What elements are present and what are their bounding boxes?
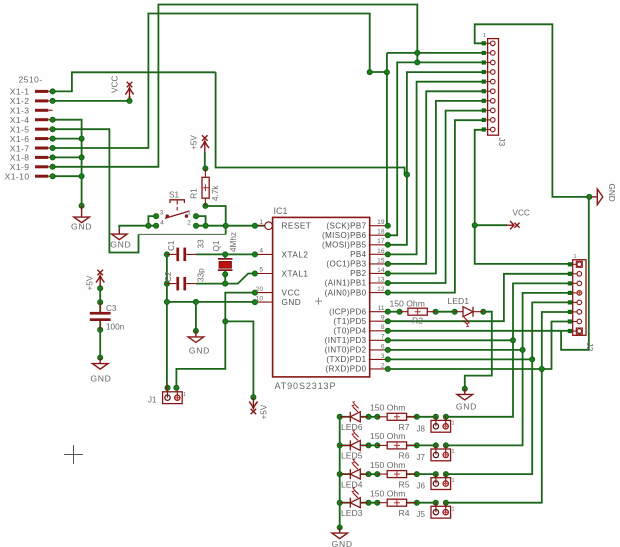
svg-text:Q1: Q1: [212, 240, 221, 251]
J3 pin 4: [484, 71, 491, 73]
node IC1 pin 16 pad: [385, 252, 390, 257]
svg-text:+5V: +5V: [86, 275, 95, 290]
junction at 81.6,157.4: [79, 155, 84, 160]
wire row8: [388, 330, 561, 332]
wire RESET row to IC: [196, 225, 265, 227]
IC1 pin 6 (INT0)PD2: [370, 349, 388, 351]
node dot at 416.8,445.4: [414, 443, 419, 448]
svg-text:LED4: LED4: [341, 479, 363, 489]
svg-text:2: 2: [381, 362, 385, 369]
IC1 pin 8 (T0)PD4: [370, 330, 388, 332]
crystal Q1 4Mhz: [218, 259, 233, 270]
junction at 474.7,225.2: [472, 223, 477, 228]
svg-text:(OC1)PB3: (OC1)PB3: [326, 260, 366, 269]
J3 pin 10: [484, 129, 491, 131]
IC1 pin 2 (RXD)PD0: [370, 368, 388, 370]
node S1 pad 4: [154, 223, 159, 228]
supply +5V above C3: [96, 270, 104, 287]
wire LED1 to GND: [465, 312, 492, 389]
wire S1 pin1 jog: [196, 216, 206, 226]
J3 pin 7: [484, 100, 491, 102]
J3 pin 8: [484, 109, 491, 111]
junction at 532.2,359.4: [530, 357, 535, 362]
svg-text:C1: C1: [167, 240, 176, 251]
LED LED5: [350, 430, 360, 450]
junction at 589.3,196.9: [587, 194, 592, 199]
node IC1 pin 11 pad: [385, 309, 390, 314]
svg-text:XTAL2: XTAL2: [282, 250, 309, 259]
svg-text:2510-: 2510-: [19, 75, 43, 85]
wire LED row 1 segments: [340, 416, 351, 418]
svg-text:100n: 100n: [106, 323, 125, 332]
junction at 166.9,283.6: [164, 281, 169, 286]
svg-text:20: 20: [256, 286, 264, 293]
svg-text:4.7k: 4.7k: [211, 185, 220, 201]
svg-text:1: 1: [483, 33, 486, 39]
wire row3: [388, 358, 532, 360]
supply VCC near IC right: [506, 221, 520, 229]
IC1 pin 1 RESET: [255, 225, 265, 227]
svg-text:XTAL1: XTAL1: [282, 270, 309, 279]
svg-text:(ICP)PD6: (ICP)PD6: [329, 307, 367, 316]
capacitor C1 33p: [167, 248, 196, 262]
svg-text:(AIN1)PB1: (AIN1)PB1: [325, 279, 367, 288]
node dot at 368.5,474.1: [366, 472, 371, 477]
wire GND symbol drop: [195, 302, 197, 332]
pin X1-2: [35, 99, 53, 102]
svg-text:GND: GND: [110, 239, 131, 249]
junction at 253.4,397.3: [251, 395, 256, 400]
junction at 148.4,225.7: [146, 223, 151, 228]
IC1 pin 17 (MOSI)PB5: [370, 244, 388, 246]
IC1 pin 9 (T1)PD5: [370, 320, 388, 322]
node dot at 377.3,502.7: [375, 500, 380, 505]
wire J3 pin4 row / PB5 drop: [388, 72, 484, 245]
svg-text:GND: GND: [90, 374, 111, 384]
svg-text:19: 19: [377, 219, 385, 226]
resistor R7 box: [387, 413, 406, 420]
wire SCK net: X1-7 to J3 top route: [53, 14, 387, 226]
svg-text:1: 1: [452, 507, 455, 513]
IC1 pin 12 (AIN0)PB0: [370, 292, 388, 294]
IC1 pin 18 (MISO)PB6: [370, 234, 388, 236]
junction at 541.8,369.0: [539, 366, 544, 371]
junction at 522.6,349.9: [520, 347, 525, 352]
svg-text:150 Ohm: 150 Ohm: [370, 403, 405, 413]
wire MISO net: X1-9 top route to J3 pin3: [53, 5, 418, 167]
node X1-9 pad: [50, 164, 55, 169]
junction at 417.3,52.9: [415, 50, 420, 55]
svg-text:11: 11: [378, 305, 385, 312]
wire RESET riser: [225, 226, 227, 235]
svg-text:GND: GND: [332, 539, 353, 547]
node dot at 416.8,502.7: [414, 500, 419, 505]
origin crosshair: [64, 445, 83, 464]
svg-text:(MISO)PB6: (MISO)PB6: [322, 231, 367, 240]
node IC1 pin 12 pad: [385, 290, 390, 295]
svg-text:4: 4: [259, 248, 263, 255]
wire J3 pin6 row / PB3 drop: [388, 91, 484, 264]
junction at 225.3,321.4: [223, 319, 228, 324]
wire J2 pin8 stub: [561, 330, 570, 332]
svg-text:1: 1: [452, 478, 455, 484]
J3 pin 3: [484, 62, 491, 64]
svg-text:5: 5: [259, 267, 263, 274]
IC1 pin 5 XTAL1: [255, 273, 273, 275]
pin X1-10: [35, 175, 53, 178]
wire XTAL2 row: [196, 253, 255, 255]
svg-text:S1: S1: [169, 191, 179, 200]
node dot at 339.7,502.7: [337, 500, 342, 505]
junction at 339.7,527.5: [337, 525, 342, 530]
svg-text:(RXD)PD0: (RXD)PD0: [326, 365, 367, 374]
svg-text:VCC: VCC: [513, 209, 530, 218]
wire J3 pin9 row / PB0 drop: [388, 120, 484, 292]
svg-text:J3: J3: [497, 138, 506, 147]
node dot at 445.9,502.7: [443, 500, 448, 505]
connector J1 box: [163, 388, 183, 404]
wire GND row pin10: [167, 301, 255, 303]
node dot at 368.5,445.4: [366, 443, 371, 448]
IC1 pin 14 PB2: [370, 272, 388, 274]
svg-text:3: 3: [381, 353, 385, 360]
IC1 pin 10 GND: [255, 301, 273, 303]
wire RESET thin run: [139, 233, 226, 235]
IC1 pin 16 PB4: [370, 253, 388, 255]
wire X1-2 to VCC symbol: [53, 96, 130, 101]
junction at 205.4,205.9: [203, 203, 208, 208]
pin X1-7: [35, 147, 53, 150]
pin X1-8: [35, 156, 53, 159]
wire +5V drop: [225, 321, 253, 397]
svg-text:8: 8: [381, 324, 385, 331]
IC1 pin 3 (TXD)PD1: [370, 358, 388, 360]
svg-text:IC1: IC1: [274, 206, 288, 216]
svg-text:J5: J5: [417, 510, 426, 519]
svg-text:150 Ohm: 150 Ohm: [370, 460, 405, 470]
svg-text:(MOSI)PB5: (MOSI)PB5: [322, 241, 367, 250]
svg-text:GND: GND: [71, 221, 92, 231]
junction at 195.9,301.9: [193, 299, 198, 304]
svg-text:X1-4: X1-4: [10, 115, 30, 125]
J2 pin 7: [570, 321, 577, 323]
node dot at 445.9,474.1: [443, 472, 448, 477]
node dot at 368.5,502.7: [366, 500, 371, 505]
node X1-6 pad: [50, 136, 55, 141]
IC1 pin 20 VCC: [255, 292, 273, 294]
svg-text:12: 12: [377, 286, 385, 293]
svg-text:X1-1: X1-1: [10, 87, 30, 97]
junction at 166.9,254.4: [164, 252, 169, 257]
wire J3 pin7 row / PB2 drop: [388, 101, 484, 274]
ground GND below pin10 row: [188, 331, 204, 343]
node dot at 435.8,502.7: [433, 500, 438, 505]
wire row6: [388, 349, 523, 351]
LED LED1: [463, 307, 473, 327]
node dot at 377.3,416.8: [375, 414, 380, 419]
supply +5V above R1: [201, 135, 209, 152]
svg-text:1: 1: [452, 421, 455, 427]
junction at 100.2,302.3: [98, 300, 103, 305]
svg-text:(AIN0)PB0: (AIN0)PB0: [325, 288, 367, 297]
svg-text:R1: R1: [189, 188, 198, 199]
ground GND under X1: [74, 206, 90, 223]
node dot at 435.8,445.4: [433, 443, 438, 448]
svg-text:PB4: PB4: [350, 250, 366, 259]
node IC1 pin 20 pad: [252, 290, 257, 295]
wire J3 pin8 row / PB1 drop: [388, 111, 484, 283]
svg-text:13: 13: [377, 276, 385, 283]
svg-text:1: 1: [187, 209, 191, 216]
svg-text:4Mhz: 4Mhz: [229, 232, 238, 252]
junction at 407.0,174.6: [404, 172, 409, 177]
IC1 pin 11 (ICP)PD6: [370, 311, 388, 313]
resistor R5 box: [387, 471, 406, 478]
svg-text:17: 17: [377, 238, 385, 245]
connector J2: [573, 260, 586, 336]
svg-text:6: 6: [381, 343, 385, 350]
svg-text:VCC: VCC: [111, 76, 120, 93]
ground GND below LED bus: [332, 528, 348, 539]
junction at 81.6,138.6: [79, 136, 84, 141]
svg-text:4: 4: [160, 219, 164, 226]
wire MOSI: X1-1 to vertical: [53, 72, 216, 91]
junction at 195.9,330.9: [193, 328, 198, 333]
supply VCC at X1-2: [125, 82, 133, 99]
J2 pin 1: [570, 263, 577, 265]
svg-text:15: 15: [377, 257, 385, 264]
J2 pin 8: [570, 330, 577, 332]
svg-text:(INT1)PD3: (INT1)PD3: [325, 336, 367, 345]
J2 pin 5: [570, 301, 577, 303]
wire S1 row to GND: [119, 226, 156, 229]
pin X1-4: [35, 118, 53, 121]
wire VCC pin20 route: [176, 293, 255, 388]
svg-text:(TXD)PD1: (TXD)PD1: [326, 355, 366, 364]
junction at 369.7,72.1: [367, 70, 372, 75]
node dot at 416.8,474.1: [414, 472, 419, 477]
wire J3 pin2 row: [387, 52, 484, 54]
wire row7: [388, 339, 513, 341]
svg-text:LED6: LED6: [341, 422, 363, 432]
svg-text:(INT0)PD2: (INT0)PD2: [325, 346, 367, 355]
junction at 205.6,225.7: [203, 223, 208, 228]
ground GND below LED1: [457, 389, 473, 400]
node IC1 pin 3 pad: [385, 357, 390, 362]
wire X1-10 stub: [53, 175, 82, 177]
svg-text:LED5: LED5: [341, 451, 363, 461]
node IC1 pin 18 pad: [385, 233, 390, 238]
LED LED6: [350, 401, 360, 421]
svg-text:10: 10: [256, 295, 264, 302]
node IC1 pin 19 pad: [385, 223, 390, 228]
connector J3: [488, 39, 499, 136]
svg-text:18: 18: [377, 229, 385, 236]
node dot at 339.7,445.4: [337, 443, 342, 448]
wire VCC arrow stub: [475, 224, 507, 226]
IC1 pin 15 (OC1)PB3: [370, 263, 388, 265]
wire LED row 2 segments: [340, 444, 351, 446]
node dot at 416.8,416.8: [414, 414, 419, 419]
wire J3 pin5 row / PB4 drop: [388, 82, 484, 255]
wire XTAL1 row with diagonal: [196, 274, 255, 284]
svg-text:1: 1: [574, 254, 577, 260]
junction at 81.6,205.7: [79, 203, 84, 208]
capacitor C3 100n: [90, 302, 111, 330]
svg-text:7: 7: [381, 334, 385, 341]
IC1 pin 7 (INT1)PD3: [370, 339, 388, 341]
capacitor C2 33p: [167, 277, 196, 291]
IC1 origin cross: [315, 298, 322, 305]
J1 pads wires: [166, 383, 168, 392]
node S1 pad 3: [154, 214, 159, 219]
wire VCC net: J3 pin10 drop to VCC arrow and J2 pin1: [475, 130, 570, 264]
junction at 166.9,301.9: [164, 299, 169, 304]
wire row2 vertical J2 pin6 / J5: [446, 312, 570, 503]
wire RESET net from X1-5: [53, 129, 139, 252]
svg-text:(T1)PD5: (T1)PD5: [333, 317, 366, 326]
svg-text:GND: GND: [607, 184, 616, 202]
svg-text:2: 2: [187, 219, 191, 226]
svg-text:J2: J2: [585, 343, 594, 352]
junction at 100.2,357.6: [98, 355, 103, 360]
junction at 205.4,168.5: [203, 166, 208, 171]
svg-text:(SCK)PB7: (SCK)PB7: [326, 221, 366, 230]
svg-text:LED3: LED3: [341, 508, 363, 518]
J3 pin 5: [484, 81, 491, 83]
node X1-1 pad: [50, 89, 55, 94]
svg-text:PB2: PB2: [350, 269, 366, 278]
node IC1 pin 2 pad: [385, 366, 390, 371]
J3 pin 6: [484, 90, 491, 92]
node IC1 pin 17 pad: [385, 242, 390, 247]
connector J5 box: [431, 502, 451, 518]
connector J7 box: [431, 445, 451, 461]
wire SCK riser to J3 pin2: [386, 53, 388, 72]
wire S1 pin3 tie: [148, 216, 156, 226]
node dot at 377.3,474.1: [375, 472, 380, 477]
junction at 483.3,311.7: [481, 309, 486, 314]
wire R2 to LED1: [436, 311, 455, 313]
node J1 pad 1: [165, 385, 170, 390]
node IC1 pin 5 pad: [252, 271, 257, 276]
node dot at 339.7,474.1: [337, 472, 342, 477]
wire LED row 4 segments: [340, 502, 351, 504]
pin X1-6: [35, 137, 53, 140]
IC1 AT90S2313P body: [273, 217, 370, 377]
junction at 100.2,288.3: [98, 286, 103, 291]
svg-text:J7: J7: [417, 453, 426, 462]
LED LED4: [350, 459, 360, 479]
wire row2: [388, 368, 542, 370]
svg-text:R2: R2: [412, 316, 423, 326]
J2 pin 6: [570, 311, 577, 313]
svg-text:J8: J8: [417, 424, 426, 433]
wire LED row 3 segments: [340, 473, 351, 475]
node X1-10 pad: [50, 174, 55, 179]
svg-text:9: 9: [381, 315, 385, 322]
node IC1 pin 6 pad: [385, 347, 390, 352]
node IC1 pin 4 pad: [252, 252, 257, 257]
junction at 225.2,283.6: [223, 281, 228, 286]
svg-text:X1-10: X1-10: [5, 172, 30, 182]
wire X1 ground bus: [53, 120, 82, 206]
wire X1-6 stub: [53, 138, 82, 140]
node S1 pad 2: [193, 223, 198, 228]
svg-text:14: 14: [377, 267, 385, 274]
svg-text:1: 1: [259, 219, 263, 226]
wire R1 bottom leg: [205, 206, 225, 226]
LED LED3: [350, 487, 360, 507]
node J1 pad 2: [174, 385, 179, 390]
node IC1 pin 8 pad: [385, 328, 390, 333]
J3 pin 9: [484, 119, 491, 121]
wire pin11 to R2: [388, 311, 400, 313]
J2 pin 3: [570, 282, 577, 284]
svg-text:150 Ohm: 150 Ohm: [370, 488, 405, 498]
J3 pin 1: [484, 42, 491, 44]
resistor R2 box: [408, 308, 427, 315]
svg-text:R4: R4: [399, 508, 410, 518]
svg-text:GND: GND: [282, 298, 302, 307]
junction at 225.7,225.7: [223, 223, 228, 228]
junction at 435.6,311.7: [433, 309, 438, 314]
svg-text:1: 1: [183, 392, 186, 398]
node X1-7 pad: [50, 145, 55, 150]
wire C1/C2 left vertical to J1 pin1: [166, 254, 168, 387]
svg-text:GND: GND: [189, 346, 210, 356]
wire row9 to J2 pin2: [388, 274, 570, 321]
wire C3 bottom: [99, 321, 101, 360]
svg-text:C2: C2: [164, 271, 173, 282]
wire X1-8 stub: [53, 156, 82, 158]
node IC1 pin 9 pad: [385, 319, 390, 324]
J3 pin 2: [484, 52, 491, 54]
junction at 81.6,176.2: [79, 174, 84, 179]
junction at 225.2,254.4: [223, 252, 228, 257]
resistor R4 box: [387, 499, 406, 506]
wire row6 vertical J2 pin4 / J7: [446, 293, 570, 446]
node IC1 pin 14 pad: [385, 271, 390, 276]
supply +5V inverted bottom: [249, 398, 257, 415]
junction at 100.2,329.8: [98, 327, 103, 332]
node X1-4 pad: [50, 117, 55, 122]
svg-text:C3: C3: [106, 304, 117, 313]
node IC1 pin 7 pad: [385, 338, 390, 343]
svg-text:1: 1: [452, 449, 455, 455]
svg-text:+5V: +5V: [260, 404, 269, 419]
svg-text:AT90S2313P: AT90S2313P: [275, 381, 337, 391]
node IC1 pin 13 pad: [385, 280, 390, 285]
svg-text:33p: 33p: [197, 268, 206, 282]
pin X1-5: [35, 128, 53, 131]
node X1-8 pad: [50, 155, 55, 160]
resistor R1 4.7k: [202, 169, 209, 206]
svg-text:150 Ohm: 150 Ohm: [390, 299, 425, 309]
junction at 399.6,311.7: [397, 309, 402, 314]
wire MOSI vertical + lower run: [216, 72, 407, 174]
svg-text:(T0)PD4: (T0)PD4: [333, 326, 366, 335]
J2 pin 4: [570, 292, 577, 294]
svg-text:16: 16: [377, 248, 385, 255]
IC1 pin 4 XTAL2: [255, 253, 273, 255]
svg-text:LED1: LED1: [448, 296, 470, 306]
wire GND net: J3 pin1 to right GND: [475, 24, 590, 197]
svg-text:33: 33: [197, 239, 206, 249]
svg-text:J6: J6: [417, 482, 426, 491]
junction at 225.2,274.3: [223, 272, 228, 277]
node IC1 pin 10 pad: [252, 300, 257, 305]
